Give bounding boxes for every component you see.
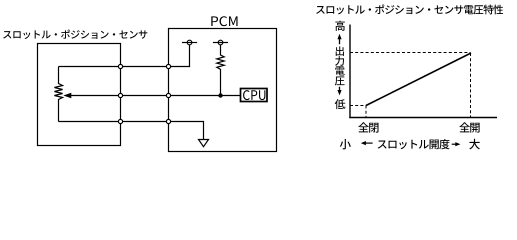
dashed guide: open-throttle position [470, 53, 472, 118]
dashed guide: closed-throttle voltage level [350, 105, 366, 107]
x label: 全開 (fully open) [459, 122, 479, 132]
sensor connector pin 2 [118, 93, 122, 97]
PCM connector pin 3 [166, 119, 170, 123]
x label: 大 (large) [469, 139, 480, 150]
graph title: スロットル・ポジション・センサ電圧特性 [316, 5, 503, 15]
wire: from terminal T1 down and left to PCM pin 1 [171, 45, 190, 67]
wire: PCM pin 3 to ground [171, 122, 204, 140]
resistor R1 (pull-up) [217, 45, 224, 96]
sensor connector pin 3 [118, 119, 122, 123]
power terminal T1 (reference voltage) circle symbol [182, 40, 197, 45]
ground symbol [199, 140, 209, 147]
axis label: 出力電圧 (output voltage) [335, 46, 345, 85]
potentiometer VR1 (sensor resistive element) [54, 67, 62, 122]
axis label: 低 (low) [335, 99, 346, 109]
label: throttle position sensor (スロットル・ポジション・センサ) [3, 30, 147, 39]
dashed guide: closed-throttle position [365, 106, 367, 118]
PCM connector pin 1 [166, 64, 170, 68]
wire: sensor ground (bottom) from VR1 bottom to PCM [59, 121, 169, 123]
dashed guide: open-throttle voltage level [350, 52, 471, 54]
wiper arrow of potentiometer [63, 93, 120, 98]
down arrow (toward low) [337, 87, 341, 96]
left arrow (toward small) [361, 141, 373, 145]
wire: sensor supply (top) from VR1 top to PCM [59, 66, 169, 68]
graph Y axis (output voltage) [349, 25, 351, 119]
axis label: 高 (high) [335, 21, 345, 31]
voltage characteristic line [366, 53, 471, 106]
PCM box (powertrain control module enclosure) [169, 29, 277, 152]
graph X axis (throttle opening) [349, 117, 497, 119]
sensor connector pin 1 [118, 64, 122, 68]
x label: 全閉 (fully closed) [358, 122, 378, 132]
PCM connector pin 2 [166, 93, 170, 97]
right arrow (toward large) [452, 142, 461, 146]
sensor box (throttle position sensor enclosure) [38, 44, 121, 146]
label: PCM [211, 16, 237, 26]
up arrow (toward high) [337, 34, 341, 44]
label: CPU [243, 90, 265, 100]
x label: 小 (small) [340, 139, 351, 149]
wire: sensor signal (middle) from wiper to CPU [121, 95, 241, 97]
x label: スロットル開度 (throttle opening) [378, 139, 450, 149]
junction node (signal / pull-up) [218, 93, 222, 97]
power terminal T2 (pull-up supply) circle symbol [213, 40, 228, 45]
CPU block U1 [241, 89, 268, 102]
